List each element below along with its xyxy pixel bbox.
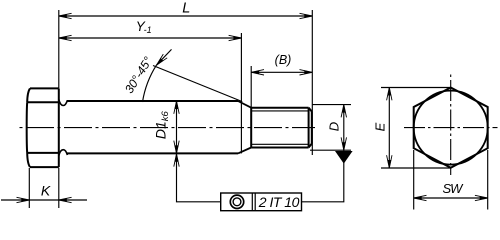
neck undercut bottom	[59, 150, 68, 156]
datum solid triangle	[335, 151, 353, 164]
shoulder cylinder	[67, 101, 238, 153]
thread minor diameter lines	[251, 111, 308, 144]
dimension K extension lines	[29, 168, 59, 208]
hex head side view outline	[27, 88, 59, 167]
Y-1 left arrow	[59, 35, 72, 40]
dimension L extension lines	[59, 10, 312, 155]
concentricity symbol	[230, 195, 243, 208]
leader arrow to D1 surface	[174, 154, 179, 167]
svg-text:SW: SW	[443, 181, 465, 196]
B right arrow	[300, 70, 313, 75]
hex centerline horizontal	[404, 127, 498, 129]
hex centerline vertical	[450, 74, 452, 175]
K right arrow (outside)	[59, 197, 72, 202]
chamfer angle arc	[143, 65, 157, 102]
svg-text:D: D	[326, 122, 341, 131]
B left arrow	[251, 70, 264, 75]
chamfer cone to thread	[238, 101, 251, 153]
chamfer angle arrow	[154, 54, 167, 67]
svg-text:L: L	[182, 1, 190, 17]
tolerance frame box	[221, 193, 302, 211]
svg-text:(B): (B)	[275, 53, 292, 67]
Y-1 right arrow	[229, 35, 242, 40]
dimension D1 line	[176, 101, 178, 153]
dimension SW extension lines	[414, 150, 488, 210]
E top arrow	[387, 88, 392, 101]
dimension Y-1 extension line	[240, 33, 242, 153]
dimension B line	[251, 71, 312, 73]
tolerance frame divider	[251, 193, 253, 211]
tolerance leader right	[302, 150, 344, 202]
dimension E extension lines	[381, 88, 451, 169]
dimension D extension lines	[310, 105, 351, 151]
D bottom arrow	[341, 137, 346, 150]
D1 top arrow	[174, 101, 179, 114]
inscribed circle	[414, 91, 488, 165]
tolerance leader left	[177, 154, 221, 202]
E bottom arrow	[387, 155, 392, 168]
svg-text:K: K	[41, 183, 51, 199]
dimension SW line	[414, 197, 488, 199]
hexagon end view	[414, 88, 488, 168]
chamfer angle arrow tail	[156, 49, 171, 65]
svg-text:2 IT 10: 2 IT 10	[258, 194, 300, 210]
K left arrow (outside)	[17, 197, 30, 202]
D1 bottom arrow	[174, 141, 179, 154]
dimension D line	[343, 105, 345, 151]
thread section	[251, 108, 312, 148]
dimension B extension line	[250, 66, 252, 108]
SW right arrow	[475, 195, 488, 200]
L right arrow	[300, 13, 313, 18]
chamfer angle leader line	[153, 66, 242, 102]
dimension K line	[1, 199, 87, 201]
D top arrow	[341, 105, 346, 118]
dimension E line	[388, 88, 390, 169]
neck undercut top	[59, 100, 68, 106]
SW left arrow	[414, 195, 427, 200]
dimension L line	[59, 15, 312, 17]
L left arrow	[59, 13, 72, 18]
svg-text:E: E	[372, 122, 387, 131]
dimension Y-1 line	[59, 37, 242, 39]
centerline main view	[18, 127, 315, 129]
